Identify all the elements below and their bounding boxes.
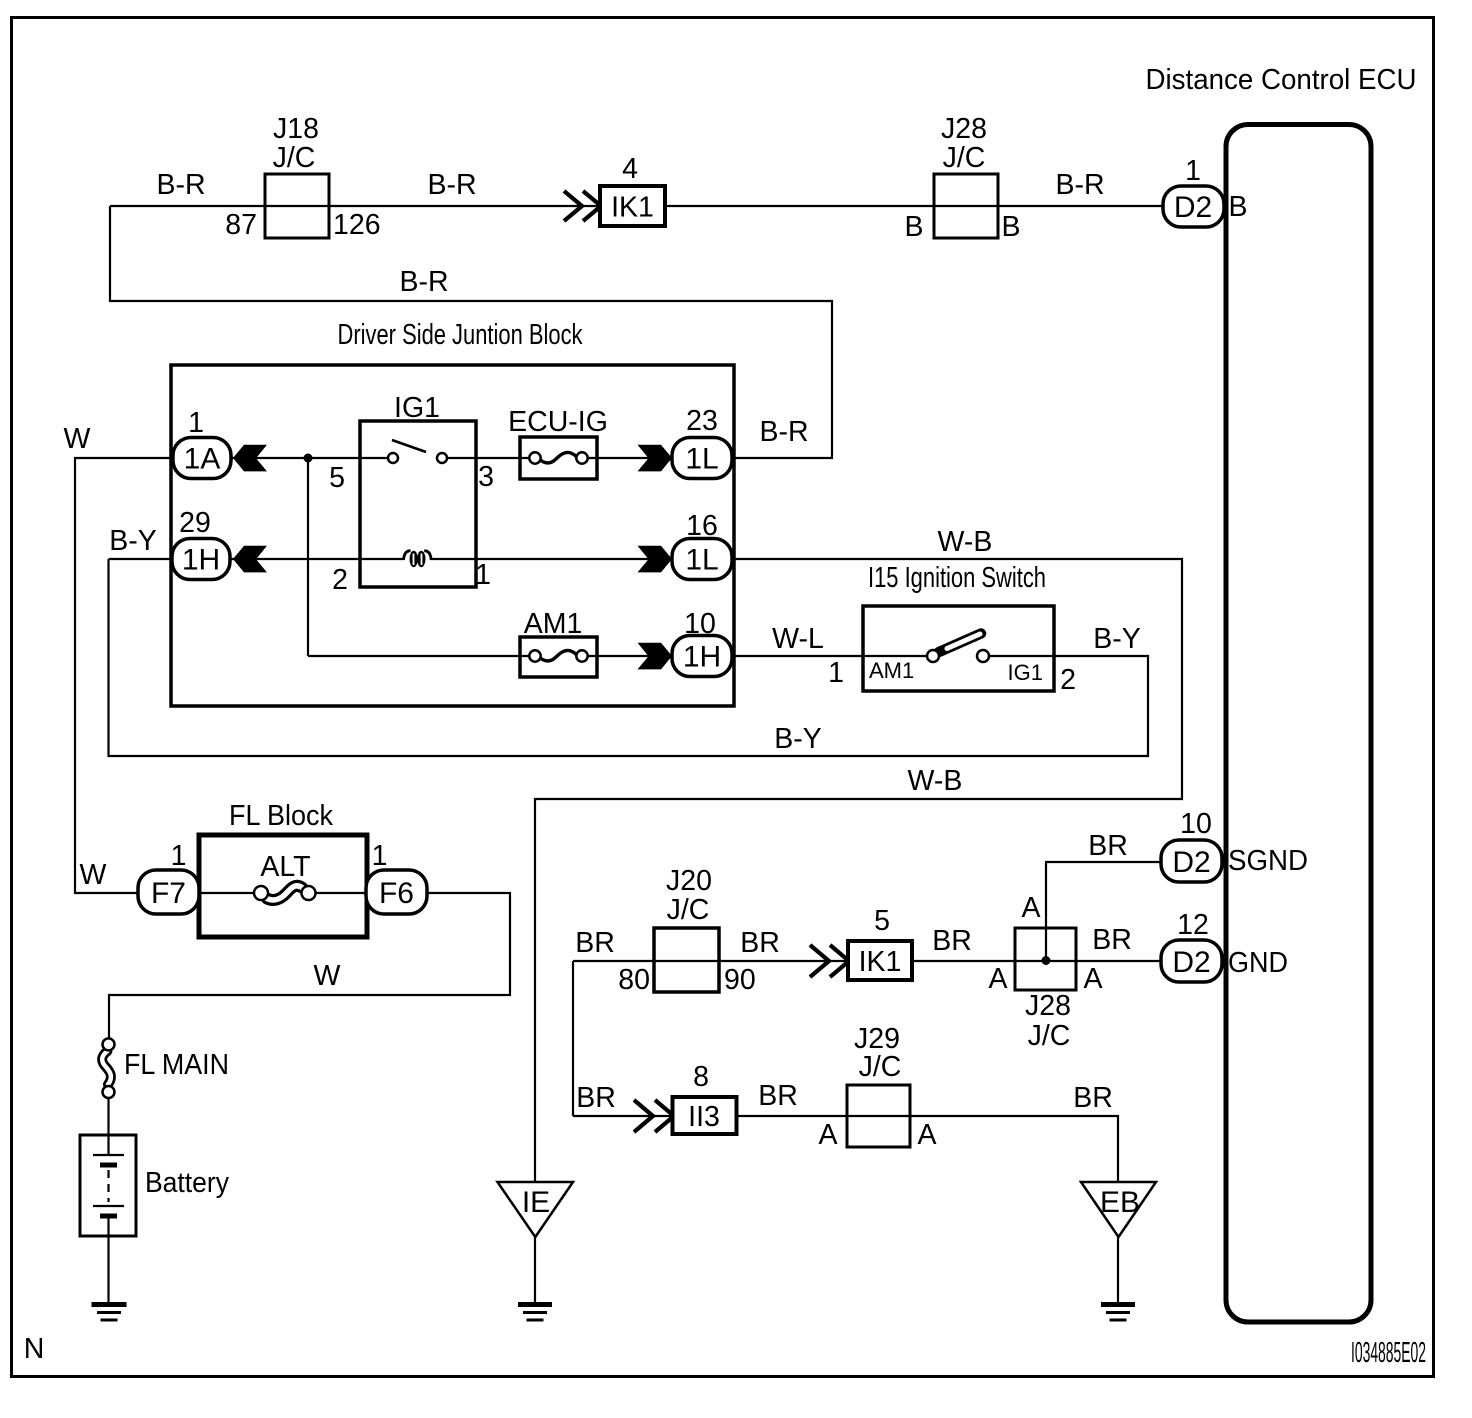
svg-text:FL Block: FL Block	[229, 800, 334, 832]
svg-text:W-L: W-L	[772, 623, 824, 655]
svg-text:J20: J20	[666, 865, 712, 897]
switch contacts IG1	[388, 453, 398, 463]
svg-text:1: 1	[1185, 155, 1201, 187]
chevron arrows to IK1	[810, 945, 849, 977]
svg-text:J/C: J/C	[859, 1051, 902, 1083]
svg-text:Distance Control ECU: Distance Control ECU	[1146, 64, 1417, 96]
svg-text:A: A	[1021, 892, 1040, 924]
wire W row1	[75, 458, 388, 893]
arrow left row1	[233, 445, 267, 472]
svg-text:GND: GND	[1228, 947, 1288, 979]
ground (IE)	[518, 1302, 552, 1307]
wire BR row II3	[573, 1116, 1118, 1182]
wire EB to ground	[1117, 1237, 1119, 1302]
svg-text:B-R: B-R	[759, 416, 808, 448]
svg-text:IK1: IK1	[859, 946, 902, 978]
wire row3 from dot to AM1	[308, 655, 672, 657]
svg-text:1L: 1L	[685, 544, 718, 577]
svg-text:1: 1	[372, 840, 388, 872]
svg-text:1H: 1H	[182, 544, 220, 577]
svg-text:87: 87	[225, 209, 257, 241]
svg-text:126: 126	[333, 209, 381, 241]
svg-text:5: 5	[874, 905, 890, 937]
ECU U1 body	[1226, 125, 1371, 1323]
svg-text:BR: BR	[1088, 830, 1128, 862]
wire B-Y row2 left	[109, 558, 174, 560]
svg-text:D2: D2	[1172, 846, 1210, 879]
svg-text:3: 3	[478, 461, 494, 493]
svg-text:W: W	[80, 859, 107, 891]
svg-text:B-R: B-R	[156, 169, 205, 201]
svg-text:I15 Ignition Switch: I15 Ignition Switch	[868, 562, 1046, 594]
svg-text:IK1: IK1	[611, 192, 654, 224]
wire W from F6 to FL MAIN	[109, 893, 510, 1038]
junction J29 J/C	[847, 1085, 910, 1147]
svg-text:W: W	[64, 423, 91, 455]
svg-text:1: 1	[475, 559, 491, 591]
wire vertical BR	[572, 961, 574, 1116]
svg-text:29: 29	[179, 507, 211, 539]
wire vertical dot to row3	[307, 458, 309, 656]
svg-text:1: 1	[828, 657, 844, 689]
svg-text:EB: EB	[1100, 1186, 1140, 1219]
svg-text:F6: F6	[379, 877, 414, 910]
wire battery to ground	[107, 1216, 109, 1302]
junction J28 J/C	[934, 174, 998, 238]
fusible link FL MAIN	[102, 1051, 111, 1085]
node dot J28	[1042, 956, 1051, 965]
svg-text:A: A	[818, 1119, 837, 1151]
svg-text:Battery: Battery	[145, 1167, 230, 1199]
svg-text:1: 1	[188, 407, 204, 439]
svg-text:80: 80	[618, 964, 650, 996]
svg-text:2: 2	[332, 564, 348, 596]
node junction dot	[304, 454, 313, 463]
svg-text:B-Y: B-Y	[774, 723, 822, 755]
junction J20 J/C	[654, 928, 719, 992]
ground triangle IE	[498, 1182, 574, 1237]
wire BR to SGND	[1046, 862, 1161, 961]
wire to battery	[107, 1098, 109, 1155]
svg-text:BR: BR	[575, 927, 615, 959]
junction J28 J/C lower	[1015, 928, 1076, 990]
svg-text:BR: BR	[740, 927, 780, 959]
svg-text:A: A	[988, 963, 1007, 995]
svg-text:F7: F7	[151, 877, 186, 910]
svg-text:AM1: AM1	[869, 658, 914, 683]
svg-text:B: B	[904, 211, 923, 243]
svg-text:B-Y: B-Y	[109, 525, 157, 557]
wire B-Y from IG1 terminal	[109, 559, 1149, 756]
svg-text:W: W	[314, 960, 341, 992]
battery	[80, 1135, 136, 1236]
wire B-R top run (node B+)	[110, 205, 1164, 207]
svg-text:J18: J18	[273, 113, 319, 145]
arrow left row2	[233, 546, 267, 573]
svg-text:A: A	[917, 1119, 936, 1151]
svg-text:23: 23	[686, 405, 718, 437]
svg-text:AM1: AM1	[524, 608, 583, 640]
svg-text:BR: BR	[758, 1080, 798, 1112]
wire IE to ground	[534, 1237, 536, 1302]
wire W-L to ignition switch	[732, 655, 928, 657]
wire BR row J20	[573, 960, 1161, 962]
ground triangle EB	[1081, 1182, 1156, 1237]
svg-text:J28: J28	[1025, 990, 1071, 1022]
wire row1 to ECU-IG fuse	[447, 457, 672, 459]
svg-text:W-B: W-B	[938, 526, 993, 558]
svg-text:8: 8	[693, 1061, 709, 1093]
arrow right row1	[638, 445, 673, 472]
svg-text:J/C: J/C	[1028, 1020, 1071, 1052]
svg-text:ECU-IG: ECU-IG	[508, 406, 608, 438]
svg-text:4: 4	[622, 153, 638, 185]
svg-text:90: 90	[724, 964, 756, 996]
svg-text:IG1: IG1	[1008, 660, 1043, 685]
svg-text:D2: D2	[1172, 946, 1210, 979]
svg-text:5: 5	[329, 462, 345, 494]
svg-text:W-B: W-B	[908, 765, 963, 797]
svg-text:I034885E02: I034885E02	[1351, 1337, 1426, 1369]
svg-text:Driver Side Juntion Block: Driver Side Juntion Block	[338, 319, 584, 351]
svg-text:BR: BR	[932, 925, 972, 957]
svg-text:J/C: J/C	[273, 142, 316, 174]
svg-text:J/C: J/C	[667, 894, 710, 926]
svg-text:IE: IE	[522, 1186, 550, 1219]
svg-text:B-R: B-R	[399, 266, 448, 298]
wire W-B from 1L16 to IE	[535, 559, 1182, 1182]
svg-text:IG1: IG1	[394, 392, 440, 424]
wire B-R loop to 1L23	[110, 206, 832, 458]
relay coil IG1	[404, 551, 411, 560]
svg-text:12: 12	[1177, 909, 1209, 941]
svg-text:1: 1	[171, 840, 187, 872]
svg-text:1A: 1A	[184, 443, 221, 476]
svg-text:B-R: B-R	[427, 169, 476, 201]
switch contacts I15	[939, 634, 981, 653]
svg-text:SGND: SGND	[1228, 845, 1308, 877]
svg-text:ALT: ALT	[260, 851, 310, 883]
svg-text:B: B	[1001, 211, 1020, 243]
svg-text:BR: BR	[1073, 1082, 1113, 1114]
svg-text:1H: 1H	[683, 641, 721, 674]
ground (EB)	[1101, 1302, 1135, 1307]
svg-text:A: A	[1083, 963, 1102, 995]
chevron arrows to IK1	[564, 191, 601, 221]
svg-text:BR: BR	[576, 1082, 616, 1114]
svg-text:D2: D2	[1174, 191, 1212, 224]
svg-text:2: 2	[1060, 664, 1076, 696]
ground (battery)	[92, 1302, 127, 1307]
svg-text:B-R: B-R	[1055, 169, 1104, 201]
svg-text:B-Y: B-Y	[1093, 623, 1141, 655]
svg-text:FL MAIN: FL MAIN	[124, 1049, 229, 1081]
svg-text:10: 10	[1180, 808, 1212, 840]
svg-text:N: N	[24, 1333, 45, 1365]
svg-text:B: B	[1228, 191, 1247, 223]
svg-text:J28: J28	[941, 113, 987, 145]
svg-text:BR: BR	[1092, 924, 1132, 956]
arrow right row2	[638, 546, 673, 573]
svg-text:II3: II3	[688, 1101, 720, 1133]
arrow right row3	[638, 643, 673, 670]
wire row2 to coil	[231, 558, 672, 560]
junction J18 J/C	[265, 174, 329, 238]
switch lever	[392, 440, 426, 452]
svg-text:1L: 1L	[685, 443, 718, 476]
chevron arrows to II3	[634, 1100, 674, 1132]
svg-text:J/C: J/C	[943, 142, 986, 174]
